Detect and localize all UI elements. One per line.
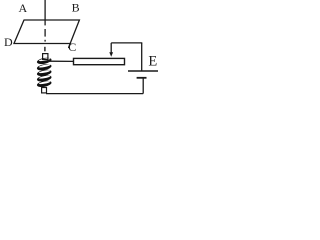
turn 5: [36, 80, 52, 89]
svg-text:E: E: [148, 54, 157, 70]
battery E: short plate: [137, 77, 147, 79]
svg-text:D: D: [4, 35, 13, 49]
solenoid L: core top end: [43, 54, 48, 60]
axis: dash-dot centerline: [44, 29, 46, 37]
solenoid L: winding turns: [36, 57, 52, 89]
rheostat R body: [74, 58, 125, 64]
wire: right vertical down to battery: [141, 43, 143, 71]
battery E: long plate: [128, 70, 158, 72]
rheostat slider arrow: [110, 43, 112, 53]
svg-text:C: C: [68, 40, 76, 54]
svg-text:B: B: [72, 1, 80, 15]
turn 2: [36, 63, 52, 72]
conducting loop ABCD (parallelogram): [14, 20, 79, 48]
turn 1: [36, 57, 52, 66]
wire: coil top to rheostat: [48, 60, 74, 62]
turn 4: [36, 74, 52, 83]
solenoid L: core bottom end: [42, 88, 47, 93]
svg-text:A: A: [18, 1, 27, 15]
turn 3: [36, 69, 52, 78]
wire: bottom horizontal back to coil: [46, 93, 143, 95]
axis: solid upper segment: [44, 0, 46, 25]
wire: battery stem down: [142, 78, 144, 94]
wire: top horizontal: [111, 42, 142, 44]
